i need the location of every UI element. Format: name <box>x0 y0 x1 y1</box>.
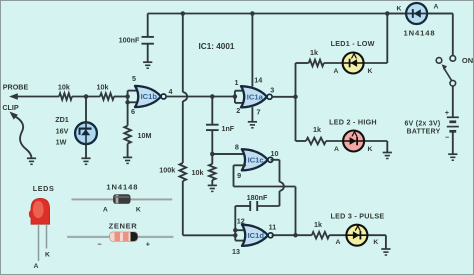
svg-text:LED 3 - PULSE: LED 3 - PULSE <box>331 211 385 220</box>
svg-text:4: 4 <box>169 87 173 96</box>
svg-text:10: 10 <box>271 149 279 158</box>
svg-text:K: K <box>397 5 402 12</box>
svg-text:K: K <box>136 206 141 213</box>
svg-text:ZENER: ZENER <box>109 222 138 231</box>
svg-text:ON: ON <box>462 56 473 65</box>
svg-text:100k: 100k <box>159 166 175 175</box>
svg-text:7: 7 <box>257 108 261 117</box>
svg-text:K: K <box>368 68 373 75</box>
svg-text:−: − <box>97 240 101 249</box>
svg-text:11: 11 <box>269 223 277 232</box>
svg-text:9: 9 <box>237 171 241 180</box>
svg-text:8: 8 <box>235 142 239 151</box>
svg-text:1k: 1k <box>314 220 322 229</box>
svg-text:13: 13 <box>232 247 240 256</box>
svg-text:A: A <box>103 206 108 213</box>
svg-text:1N4148: 1N4148 <box>106 183 138 192</box>
svg-text:1W: 1W <box>56 138 67 147</box>
svg-text:K: K <box>373 239 378 246</box>
svg-text:10M: 10M <box>138 131 152 140</box>
svg-text:16V: 16V <box>56 127 69 136</box>
svg-text:1nF: 1nF <box>222 125 235 133</box>
svg-text:10k: 10k <box>192 168 204 177</box>
svg-text:A: A <box>334 146 339 153</box>
svg-text:A: A <box>336 239 341 246</box>
svg-text:K: K <box>45 252 50 259</box>
svg-text:LED1 - LOW: LED1 - LOW <box>331 39 375 48</box>
svg-text:1k: 1k <box>313 125 321 134</box>
svg-text:CLIP: CLIP <box>2 103 19 112</box>
svg-text:K: K <box>368 146 373 153</box>
svg-text:IC1a: IC1a <box>247 92 264 101</box>
svg-text:180nF: 180nF <box>247 193 268 202</box>
svg-text:12: 12 <box>237 217 245 226</box>
svg-text:PROBE: PROBE <box>3 82 29 91</box>
svg-text:6: 6 <box>131 107 135 116</box>
svg-text:IC1b: IC1b <box>141 92 158 101</box>
svg-text:A: A <box>34 263 39 270</box>
svg-text:IC1: 4001: IC1: 4001 <box>199 42 235 51</box>
svg-text:10k: 10k <box>97 83 109 92</box>
svg-text:+: + <box>445 110 449 117</box>
svg-text:BATTERY: BATTERY <box>407 128 441 135</box>
svg-text:3: 3 <box>270 85 274 94</box>
svg-text:IC1c: IC1c <box>248 155 264 164</box>
svg-text:A: A <box>334 68 339 75</box>
svg-text:+: + <box>146 240 150 249</box>
svg-text:6V (2x 3V): 6V (2x 3V) <box>405 120 441 127</box>
svg-text:2: 2 <box>236 106 240 115</box>
svg-text:IC1d: IC1d <box>248 231 265 240</box>
svg-text:ZD1: ZD1 <box>55 115 69 124</box>
svg-text:5: 5 <box>132 74 136 83</box>
svg-text:LED 2 - HIGH: LED 2 - HIGH <box>329 117 377 126</box>
svg-text:1N4148: 1N4148 <box>403 29 435 38</box>
svg-text:A: A <box>434 4 439 11</box>
svg-text:14: 14 <box>254 76 262 85</box>
svg-text:100nF: 100nF <box>119 35 140 44</box>
svg-text:1: 1 <box>235 78 239 87</box>
svg-text:−: − <box>445 135 449 142</box>
svg-text:LEDS: LEDS <box>33 184 55 193</box>
svg-text:1k: 1k <box>310 48 318 57</box>
svg-text:10k: 10k <box>58 83 70 92</box>
